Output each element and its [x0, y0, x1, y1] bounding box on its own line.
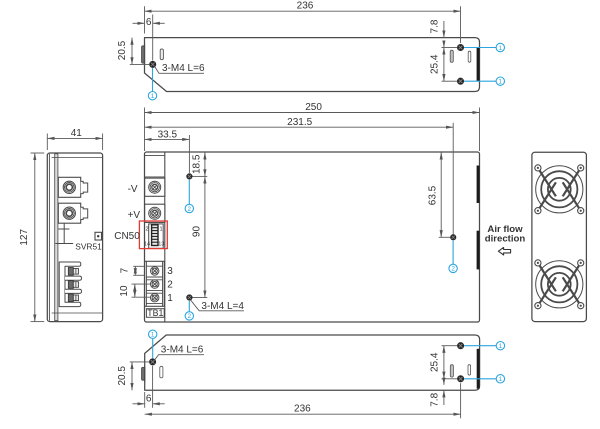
- TB1 terminal assembly outline: [145, 261, 165, 306]
- side view TB1 bracket: [59, 262, 81, 307]
- callout 1 top left: [152, 68, 154, 92]
- svg-text:13: 13: [158, 242, 164, 248]
- top view mounting screw right upper: [457, 44, 463, 50]
- side view +V terminal block: [58, 203, 80, 223]
- svg-text:1: 1: [499, 376, 503, 383]
- svg-text:1: 1: [499, 343, 503, 350]
- svg-text:CN50: CN50: [114, 231, 140, 242]
- top view vent slot right B: [468, 51, 471, 62]
- fan side panel outline: [532, 152, 587, 321]
- svg-text:3-M4 L=6: 3-M4 L=6: [162, 63, 205, 74]
- potentiometer SVR51: [95, 232, 102, 240]
- svg-text:6: 6: [146, 17, 152, 28]
- dimension 63.5: [439, 152, 450, 237]
- svg-text:25.4: 25.4: [429, 352, 440, 372]
- top view vent slot left: [160, 49, 163, 60]
- svg-text:33.5: 33.5: [158, 129, 178, 140]
- mounting screw top (18.5/33.5): [187, 174, 192, 179]
- side view -V terminal tab: [81, 181, 88, 193]
- callout 2 at bottom screw: [188, 301, 190, 312]
- front panel strip right edge: [164, 152, 166, 321]
- callout 1 bottom right lower: [464, 378, 496, 380]
- dimension 25.4 top: [442, 48, 458, 82]
- callout 1 bottom right upper: [464, 345, 496, 347]
- svg-text:10: 10: [119, 285, 130, 297]
- terminal block -V: [145, 178, 165, 196]
- svg-text:3-M4 L=4: 3-M4 L=4: [201, 301, 244, 312]
- callout 1 top right upper: [464, 47, 496, 49]
- dimension 236 top: [145, 6, 461, 43]
- svg-text:3: 3: [167, 266, 173, 277]
- svg-text:7.8: 7.8: [429, 19, 440, 33]
- front panel strip top inner line: [145, 154, 165, 156]
- dimension 250: [145, 108, 480, 152]
- side view inner left line: [48, 154, 50, 321]
- dimension 90: [193, 176, 208, 297]
- main view right edge dark bar lower: [477, 231, 480, 270]
- svg-text:7.8: 7.8: [429, 392, 440, 406]
- side view TB1 screw 3: [68, 268, 78, 276]
- label 3-M4 L=6 bottom with leader: [155, 355, 204, 360]
- fan guard upper: [535, 165, 584, 214]
- bottom view mounting screw right lower: [458, 376, 464, 382]
- side view TB1 screw 2: [68, 281, 78, 289]
- svg-text:231.5: 231.5: [287, 117, 312, 128]
- connector CN50 body: [149, 224, 164, 248]
- TB1 screw 1: [151, 294, 159, 302]
- svg-text:2: 2: [188, 313, 192, 320]
- CN50 red highlight box: [139, 221, 167, 249]
- svg-text:20.5: 20.5: [117, 366, 128, 386]
- svg-text:+V: +V: [128, 210, 141, 221]
- svg-text:1: 1: [159, 226, 162, 232]
- svg-text:14: 14: [144, 242, 150, 248]
- front panel upper section divider: [145, 176, 165, 178]
- dimension 7.8 top: [442, 21, 458, 48]
- svg-text:7: 7: [119, 267, 130, 273]
- bottom view mounting screw left: [150, 359, 156, 365]
- side view bracket below terminals: [55, 223, 73, 243]
- svg-text:236: 236: [297, 0, 314, 11]
- callout 1 bottom left: [152, 339, 154, 359]
- svg-text:18.5: 18.5: [192, 154, 203, 174]
- svg-text:236: 236: [294, 404, 311, 415]
- svg-text:2: 2: [145, 226, 148, 232]
- dimension 10 (TB1): [132, 284, 151, 297]
- side view +V terminal tab: [81, 207, 88, 219]
- top view right edge dark bar: [477, 48, 480, 82]
- TB1 name box: [146, 309, 164, 318]
- air flow arrow: [498, 247, 510, 255]
- svg-text:127: 127: [19, 229, 30, 246]
- TB1 inner frame lines: [145, 261, 147, 306]
- svg-text:2: 2: [167, 280, 173, 291]
- svg-text:41: 41: [71, 128, 83, 139]
- main view right edge dark bar upper: [477, 166, 480, 204]
- dimension 6 bottom: [133, 366, 165, 408]
- svg-text:SVR51: SVR51: [75, 242, 102, 252]
- svg-text:1: 1: [151, 93, 155, 100]
- top view case outline: [145, 38, 480, 92]
- svg-text:3-M4 L=6: 3-M4 L=6: [161, 344, 204, 355]
- bottom view vent slot right B: [468, 365, 471, 375]
- bottom view edge slot on left edge: [142, 367, 145, 380]
- svg-text:2: 2: [451, 266, 455, 273]
- side view TB1 screw 1: [68, 294, 78, 302]
- svg-text:250: 250: [305, 102, 322, 113]
- top view mounting screw right lower: [457, 78, 463, 84]
- side view -V terminal block: [58, 177, 80, 197]
- top view vent slot right A: [450, 50, 453, 62]
- svg-text:1: 1: [151, 332, 155, 339]
- top view edge slot on left edge: [142, 46, 145, 63]
- callout 1 top right lower: [464, 80, 496, 82]
- svg-text:1: 1: [499, 79, 503, 86]
- svg-text:1: 1: [167, 293, 173, 304]
- side view case outline: [47, 153, 102, 322]
- svg-text:25.4: 25.4: [429, 54, 440, 74]
- svg-text:2: 2: [188, 206, 192, 213]
- bottom view vent slot left: [160, 366, 163, 378]
- bottom view case outline: [145, 335, 480, 390]
- terminal block +V: [145, 204, 165, 222]
- dimension 7 (TB1): [133, 266, 144, 275]
- TB1 screw 3: [151, 267, 159, 275]
- label 3-M4 L=6 top with leader: [155, 67, 204, 74]
- svg-text:63.5: 63.5: [428, 185, 439, 205]
- svg-text:TB1: TB1: [147, 308, 163, 318]
- label 3-M4 L=4 with leader: [191, 300, 244, 311]
- dimension 236 bottom: [145, 383, 461, 418]
- svg-text:20.5: 20.5: [117, 40, 128, 60]
- fan guard lower: [535, 260, 584, 309]
- bottom view right edge dark bar: [477, 349, 480, 389]
- bottom view vent slot right A: [450, 365, 453, 377]
- dimension 33.5: [145, 135, 190, 173]
- main view case outline: [145, 152, 480, 322]
- dimension 127: [31, 153, 45, 322]
- side view channel: [55, 154, 58, 321]
- connector CN50 pin ladder: [152, 225, 158, 246]
- dimension 18.5: [193, 152, 208, 176]
- svg-text:direction: direction: [485, 233, 526, 244]
- side view inner bottom line: [52, 312, 102, 314]
- svg-text:90: 90: [192, 226, 203, 238]
- dimension 20.5 top: [130, 38, 149, 65]
- mounting screw right (63.5): [450, 235, 455, 240]
- mounting screw bottom (3-M4 L=4): [187, 295, 192, 300]
- svg-text:1: 1: [499, 45, 503, 52]
- dimension 7.8 bottom: [442, 379, 458, 405]
- svg-text:6: 6: [146, 394, 152, 405]
- dimension 231.5: [145, 123, 454, 234]
- side view inner top line: [52, 157, 102, 159]
- top view mounting screw left: [150, 61, 156, 67]
- callout 2 at right screw: [452, 241, 454, 265]
- TB1 screw 2: [151, 280, 159, 288]
- dimension 6 top: [133, 15, 165, 61]
- dimension 41: [47, 134, 102, 151]
- bottom view mounting screw right upper: [458, 343, 464, 349]
- callout 2 at top screw: [188, 180, 190, 204]
- svg-text:-V: -V: [128, 184, 138, 195]
- dimension 25.4 bottom: [442, 346, 458, 379]
- dimension 20.5 bottom: [130, 362, 149, 390]
